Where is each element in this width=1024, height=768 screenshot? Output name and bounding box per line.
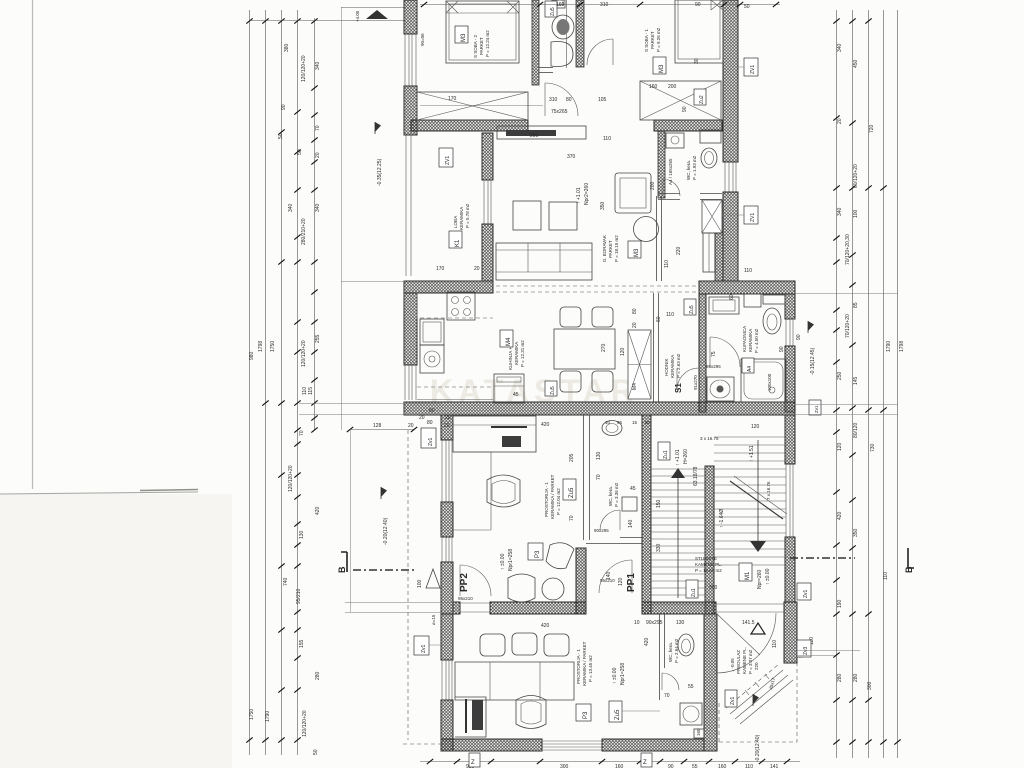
svg-text:PROSTORIJA - 1: PROSTORIJA - 1	[544, 482, 549, 517]
svg-text:160: 160	[718, 764, 727, 768]
stairs window right	[786, 464, 793, 537]
svg-text:20: 20	[474, 266, 480, 272]
svg-text:280: 280	[837, 673, 843, 682]
svg-text:170: 170	[448, 96, 457, 102]
svg-text:90x295: 90x295	[594, 528, 609, 533]
svg-text:P = 18.15 m2: P = 18.15 m2	[614, 235, 619, 262]
svg-text:450: 450	[853, 59, 859, 68]
corridor small dims	[605, 420, 651, 425]
svg-text:Zu5: Zu5	[615, 709, 621, 720]
svg-text:70: 70	[664, 693, 670, 699]
label ZV1 left lower	[414, 636, 443, 655]
stairs texts	[675, 449, 689, 466]
svg-text:20: 20	[837, 118, 843, 124]
svg-text:255: 255	[315, 334, 321, 343]
svg-text:KAMENE PL.: KAMENE PL.	[695, 562, 722, 567]
kitchen top band	[404, 281, 493, 293]
label P3 box bottom	[576, 704, 591, 721]
chair NW	[560, 307, 581, 327]
label ZV1 top right	[738, 58, 758, 76]
svg-text:↔: ↔	[798, 654, 803, 660]
wardrobe S SOBA-2 (X)	[417, 92, 528, 120]
label Zu1 stairs	[686, 580, 698, 598]
svg-text:KERAMIKA: KERAMIKA	[670, 355, 675, 378]
bidet upper WC	[551, 42, 573, 67]
loggia left railing	[406, 135, 411, 276]
svg-text:↑ +1.01: ↑ +1.01	[675, 449, 681, 466]
top cut texts	[556, 2, 701, 8]
svg-text:340: 340	[315, 61, 321, 70]
svg-text:P = 2.63 m2: P = 2.63 m2	[676, 353, 681, 378]
label ZV1 upper-left lower apt	[421, 428, 436, 448]
loggia right wall upper	[482, 133, 493, 180]
upper WC partition (S SOBA-1 side)	[576, 0, 584, 67]
svg-text:128: 128	[373, 423, 382, 429]
svg-text:150: 150	[656, 499, 662, 508]
svg-text:Zv1: Zv1	[421, 644, 427, 653]
svg-text:170: 170	[436, 266, 445, 272]
svg-text:Zu5: Zu5	[550, 7, 556, 16]
svg-text:PP1: PP1	[626, 573, 637, 592]
svg-text:P = 3.07 m2: P = 3.07 m2	[748, 649, 753, 674]
svg-text:420: 420	[644, 637, 650, 646]
svg-text:P = 1.93 m2: P = 1.93 m2	[692, 155, 697, 180]
lower apt left wall seg4	[441, 614, 453, 660]
svg-text:95/210: 95/210	[296, 588, 302, 604]
svg-text:220: 220	[676, 246, 682, 255]
lower apt left wall seg3	[441, 562, 453, 614]
stair flight 1 arrow up	[671, 468, 685, 598]
door S SOBA-1	[587, 39, 613, 65]
svg-text:85: 85	[853, 302, 859, 308]
svg-text:1798: 1798	[899, 341, 905, 352]
ext wall right bathroom lower	[785, 346, 795, 412]
svg-text:KUPAONICA: KUPAONICA	[742, 326, 747, 352]
svg-text:↑ ±0.00: ↑ ±0.00	[500, 553, 506, 570]
right dimension chain line 3	[868, 10, 870, 758]
svg-text:ZV1: ZV1	[445, 156, 451, 165]
svg-text:720: 720	[869, 124, 875, 133]
svg-text:110: 110	[603, 136, 611, 142]
kitchen window	[405, 365, 416, 400]
porch dashed outline	[719, 663, 797, 742]
corridor wall band left part	[453, 602, 460, 614]
svg-text:120/120+20: 120/120+20	[301, 340, 307, 367]
big table lower room	[455, 662, 574, 700]
label Zu1 stairs top	[658, 442, 670, 460]
label S SOBA-2	[473, 30, 490, 58]
svg-text:115: 115	[308, 387, 314, 395]
stairs mid stringer	[705, 466, 714, 614]
office chair PP2	[487, 475, 520, 507]
svg-text:160: 160	[556, 2, 565, 8]
svg-text:1798: 1798	[258, 341, 264, 352]
svg-text:60: 60	[645, 420, 651, 425]
door S1 to kitchen	[677, 368, 699, 390]
svg-text:340: 340	[837, 43, 843, 52]
stairs left wall	[642, 415, 651, 614]
label Zu5 top	[545, 1, 557, 17]
svg-text:↑ ±0.00: ↑ ±0.00	[765, 568, 771, 585]
svg-text:60: 60	[656, 316, 662, 322]
svg-text:Zv1: Zv1	[428, 437, 434, 446]
stair flight 1 treads	[651, 469, 705, 595]
svg-text:340: 340	[288, 203, 294, 212]
svg-text:190: 190	[837, 599, 843, 608]
kitchen sink unit	[420, 319, 444, 345]
svg-text:140: 140	[628, 519, 634, 528]
right dimension chain line 1	[836, 10, 838, 758]
WC upper left wall	[658, 131, 665, 198]
svg-text:70: 70	[596, 474, 602, 480]
svg-text:420: 420	[315, 506, 321, 515]
svg-text:120/120+20: 120/120+20	[302, 710, 308, 737]
svg-text:ZV1: ZV1	[750, 65, 756, 74]
svg-text:141.5: 141.5	[742, 620, 755, 626]
pouf 2	[549, 202, 577, 230]
label KUPAONICA	[742, 326, 759, 353]
svg-text:↑ ±0.00: ↑ ±0.00	[612, 667, 618, 684]
svg-text:141: 141	[770, 764, 779, 768]
WC lower-left partition	[584, 415, 590, 540]
svg-text:80/120: 80/120	[853, 422, 859, 438]
svg-text:980: 980	[249, 351, 255, 360]
office chair bottom	[516, 696, 546, 729]
svg-text:200: 200	[650, 181, 656, 190]
WC window right	[725, 162, 736, 192]
kitchen sink round	[420, 345, 444, 373]
svg-text:90: 90	[796, 334, 802, 340]
outside steps diagonal	[726, 664, 793, 724]
shower	[741, 359, 786, 402]
svg-text:K1: K1	[455, 239, 461, 247]
WC bottom-right right wall (hatch)	[704, 614, 717, 751]
svg-text:LOĐA: LOĐA	[453, 216, 458, 228]
svg-text:Npr1=258: Npr1=258	[508, 549, 514, 571]
corridor stub wall	[576, 548, 586, 614]
mid band (below upper apartment)	[404, 402, 795, 415]
svg-text:Zu1: Zu1	[691, 588, 697, 597]
svg-text:100x100: 100x100	[767, 373, 772, 391]
stairs level text	[757, 568, 771, 589]
bathroom window	[786, 319, 793, 346]
svg-text:70: 70	[569, 515, 575, 521]
right dimension chain line 4	[883, 10, 885, 758]
lower right ext wall seg2	[785, 537, 795, 602]
svg-text:95x295: 95x295	[706, 364, 721, 369]
kitchen lower counter dashed	[417, 386, 493, 388]
svg-text:P = 12.04 m2: P = 12.04 m2	[556, 488, 561, 515]
label Zu5 kitchen	[545, 381, 557, 396]
lower apt window3	[442, 660, 452, 700]
svg-text:↑ +1.01: ↑ +1.01	[576, 187, 582, 204]
svg-text:-0.20(12.40): -0.20(12.40)	[755, 734, 761, 762]
chair NE	[592, 307, 613, 327]
label KUHINJA	[508, 333, 525, 370]
bottom dim row	[420, 761, 800, 763]
svg-text:350: 350	[853, 528, 859, 537]
label PROSTORIJA-1 upper	[544, 474, 561, 519]
label ZV1 right mid	[722, 206, 758, 224]
upper WC bottom wall	[539, 68, 553, 73]
svg-text:7 x 16.76: 7 x 16.76	[766, 481, 771, 500]
label M4 box kitchen	[500, 330, 513, 347]
left chain dimension texts	[249, 43, 321, 755]
svg-text:Zu5: Zu5	[689, 305, 695, 314]
stove	[447, 292, 475, 320]
sink upper WC (cut at top)	[552, 0, 565, 8]
svg-text:PARKET: PARKET	[479, 37, 484, 55]
svg-text:63.18/78: 63.18/78	[693, 466, 699, 486]
svg-text:P = 5.78 m2: P = 5.78 m2	[465, 203, 470, 228]
svg-text:110: 110	[772, 640, 778, 648]
svg-text:55: 55	[688, 684, 694, 690]
label PREDULAZ	[730, 647, 759, 674]
svg-text:WC, kera.: WC, kera.	[608, 486, 613, 506]
left dimension chain line 4	[297, 10, 299, 755]
svg-text:1750: 1750	[270, 341, 276, 352]
svg-text:330: 330	[656, 543, 662, 552]
desk return PP2	[453, 452, 491, 530]
svg-text:45: 45	[513, 392, 519, 398]
svg-text:91x270: 91x270	[693, 375, 698, 390]
label Zu2	[694, 89, 706, 105]
boravak/WC partition	[657, 196, 662, 281]
svg-text:110: 110	[883, 572, 889, 580]
label PROSTORIJA-1 lower	[576, 641, 593, 686]
label Zu5 bottom	[609, 701, 660, 722]
sink bottom WC	[680, 703, 702, 725]
svg-text:KERAMIKA: KERAMIKA	[459, 207, 464, 230]
svg-text:50: 50	[278, 133, 284, 139]
svg-text:WC, kera.: WC, kera.	[668, 642, 673, 662]
ext wall right bathroom upper	[785, 294, 795, 319]
svg-text:80: 80	[632, 308, 638, 314]
svg-text:H=260: H=260	[683, 449, 689, 464]
bottom band	[441, 739, 542, 751]
svg-text:90: 90	[682, 106, 688, 112]
svg-text:90=06: 90=06	[420, 33, 425, 46]
lower apt left wall seg5	[441, 700, 453, 751]
toilet upper WC	[552, 15, 574, 39]
svg-text:340: 340	[837, 207, 843, 216]
extension lines left of band	[299, 403, 441, 405]
svg-text:155: 155	[299, 639, 305, 648]
door PP1 entry	[599, 560, 632, 593]
dashed balcony left	[407, 430, 409, 740]
label S SOBA-1	[644, 27, 661, 52]
left chain ticks	[246, 18, 317, 742]
kitchen cabinet block	[494, 374, 524, 403]
svg-text:Zu1: Zu1	[663, 450, 669, 459]
svg-text:120/120+20: 120/120+20	[301, 55, 307, 82]
door WC lower	[600, 510, 620, 530]
wardrobe S SOBA-1 (X)	[640, 81, 721, 120]
section line B right	[790, 557, 855, 559]
svg-text:1750: 1750	[249, 709, 255, 720]
svg-text:Zv1: Zv1	[814, 405, 819, 413]
svg-text:Zv1: Zv1	[730, 696, 736, 705]
svg-text:70: 70	[315, 125, 321, 131]
svg-text:P = 12.60 m2: P = 12.60 m2	[695, 568, 722, 573]
svg-text:Zu2: Zu2	[699, 95, 705, 104]
svg-text:380: 380	[284, 43, 290, 52]
loggia right wall lower	[482, 224, 493, 281]
svg-text:90x295: 90x295	[646, 620, 663, 626]
chairs row lower room	[480, 633, 569, 656]
entrance door arc	[716, 613, 776, 673]
svg-text:350: 350	[600, 201, 606, 210]
door WC bottom	[662, 673, 679, 690]
svg-text:130: 130	[676, 620, 685, 626]
svg-text:310: 310	[549, 97, 558, 103]
svg-text:160: 160	[615, 764, 624, 768]
svg-text:KERAMIKA / PARKET: KERAMIKA / PARKET	[582, 641, 587, 686]
label WC lower	[608, 482, 619, 507]
svg-text:80: 80	[566, 97, 572, 103]
svg-text:S SOBA - 1: S SOBA - 1	[644, 28, 649, 52]
label D BORAVAK	[602, 235, 619, 262]
lower apt left wall seg1	[441, 415, 453, 440]
svg-text:90: 90	[695, 2, 701, 8]
svg-text:PP2: PP2	[459, 573, 470, 592]
svg-text:PROSTORIJA - 1: PROSTORIJA - 1	[576, 649, 581, 684]
svg-text:120: 120	[618, 577, 624, 586]
svg-text:P = 3.36 m2: P = 3.36 m2	[614, 482, 619, 507]
svg-text:P = 9.26 m2: P = 9.26 m2	[656, 27, 661, 52]
svg-text:KERAMIKA: KERAMIKA	[514, 342, 519, 365]
top dim row	[420, 4, 780, 6]
sheet edge horizontal line	[0, 492, 198, 494]
top level marker lines	[341, 7, 405, 9]
svg-text:B: B	[904, 566, 914, 573]
door S SOBA-2	[545, 83, 578, 116]
bathroom cabinet	[744, 294, 761, 307]
svg-text:60/120+20: 60/120+20	[853, 164, 859, 188]
label WC upper text	[686, 155, 697, 180]
chimney shaft X	[702, 200, 722, 233]
svg-text:60: 60	[729, 294, 735, 300]
svg-text:M3: M3	[634, 248, 640, 257]
bed S SOBA-1	[675, 0, 723, 63]
label A4 upper	[668, 158, 673, 185]
lower level text	[612, 663, 626, 685]
svg-text:20: 20	[315, 152, 321, 158]
svg-text:KERAMIKA: KERAMIKA	[748, 329, 753, 352]
svg-text:80: 80	[429, 408, 435, 414]
sofa living	[496, 243, 592, 280]
PP2 door threshold	[460, 603, 490, 612]
label M3 box S2	[455, 26, 468, 43]
svg-text:70/120+20: 70/120+20	[845, 314, 851, 338]
svg-text:20: 20	[445, 415, 451, 421]
svg-text:ZV1: ZV1	[750, 213, 756, 222]
svg-text:110: 110	[664, 260, 670, 268]
svg-text:P = 12.24 m2: P = 12.24 m2	[485, 30, 490, 57]
ext wall left mid (hatch)	[404, 86, 417, 135]
svg-text:310: 310	[600, 2, 609, 8]
label HODNIK S1	[664, 353, 681, 378]
bed S SOBA-2	[446, 1, 519, 63]
svg-text:100: 100	[853, 209, 859, 218]
desk bottom with monitor	[455, 697, 486, 737]
bottom window	[542, 741, 602, 750]
svg-text:300: 300	[560, 764, 569, 768]
stair dashed rail	[651, 603, 705, 605]
svg-text:1790: 1790	[265, 711, 271, 722]
svg-text:160: 160	[649, 84, 658, 90]
svg-text:Z: Z	[471, 760, 475, 766]
svg-text:300: 300	[867, 681, 873, 690]
svg-text:P3: P3	[583, 711, 589, 719]
label K1 box	[449, 231, 462, 248]
label M1 box	[739, 563, 752, 581]
bathroom left wall	[699, 294, 706, 412]
svg-text:740: 740	[283, 577, 289, 586]
dashed ceiling line living	[496, 285, 700, 287]
label WC bottom	[668, 638, 679, 663]
svg-text:50: 50	[313, 749, 319, 755]
svg-text:45: 45	[630, 486, 636, 492]
svg-text:20: 20	[419, 415, 425, 421]
svg-text:KAMENE PL.: KAMENE PL.	[742, 647, 747, 674]
svg-text:30: 30	[694, 58, 700, 64]
svg-text:420: 420	[541, 422, 550, 428]
svg-text:PARKET: PARKET	[608, 240, 613, 258]
S1 hall left partition	[654, 293, 659, 402]
svg-text:220: 220	[754, 662, 759, 670]
svg-text:160: 160	[696, 728, 701, 736]
corridor line above living	[420, 105, 543, 107]
svg-text:100: 100	[417, 579, 423, 588]
svg-text:3 x 16.76: 3 x 16.76	[700, 436, 719, 441]
label ZV1 loggia	[439, 148, 453, 167]
sideboard living	[497, 126, 586, 139]
window left (S SOBA-2)	[404, 34, 417, 86]
svg-text:95x210: 95x210	[458, 596, 473, 601]
svg-text:120: 120	[620, 347, 626, 356]
level flag -0.20 left	[381, 487, 389, 545]
svg-text:Npr2=260: Npr2=260	[584, 183, 590, 205]
svg-text:A4: A4	[747, 366, 753, 372]
svg-text:130: 130	[299, 530, 305, 539]
svg-text:↓ -0.05: ↓ -0.05	[730, 658, 735, 672]
sheet edge vertical line	[32, 0, 34, 489]
label M3 box S1	[653, 57, 666, 74]
corridor band right part	[642, 602, 716, 614]
svg-text:110: 110	[744, 268, 752, 274]
svg-text:Npr=260: Npr=260	[757, 569, 763, 589]
band below S SOBA-2 wardrobe	[411, 120, 528, 131]
bathroom washbasin	[709, 297, 739, 314]
lower apt window1	[442, 440, 452, 502]
label A4 box bath	[742, 358, 754, 373]
svg-text:KERAMIKA / PARKET: KERAMIKA / PARKET	[550, 474, 555, 519]
dining table	[554, 329, 615, 369]
svg-text:+4.05: +4.05	[355, 10, 360, 22]
stair flight 2 treads	[714, 437, 786, 565]
washing machine	[666, 133, 684, 148]
left dimension chain line 5	[314, 18, 316, 430]
section line B left	[353, 569, 417, 571]
extension lines bottom left of plan	[345, 612, 453, 614]
svg-text:P = 13.45 m2: P = 13.45 m2	[588, 655, 593, 682]
left dimension chain line 1	[249, 10, 251, 755]
kitchen counter dashed	[417, 293, 493, 318]
svg-text:280/210+20: 280/210+20	[301, 218, 307, 245]
right dimension chain line 5	[897, 10, 899, 758]
door PP2 entry	[460, 565, 491, 596]
